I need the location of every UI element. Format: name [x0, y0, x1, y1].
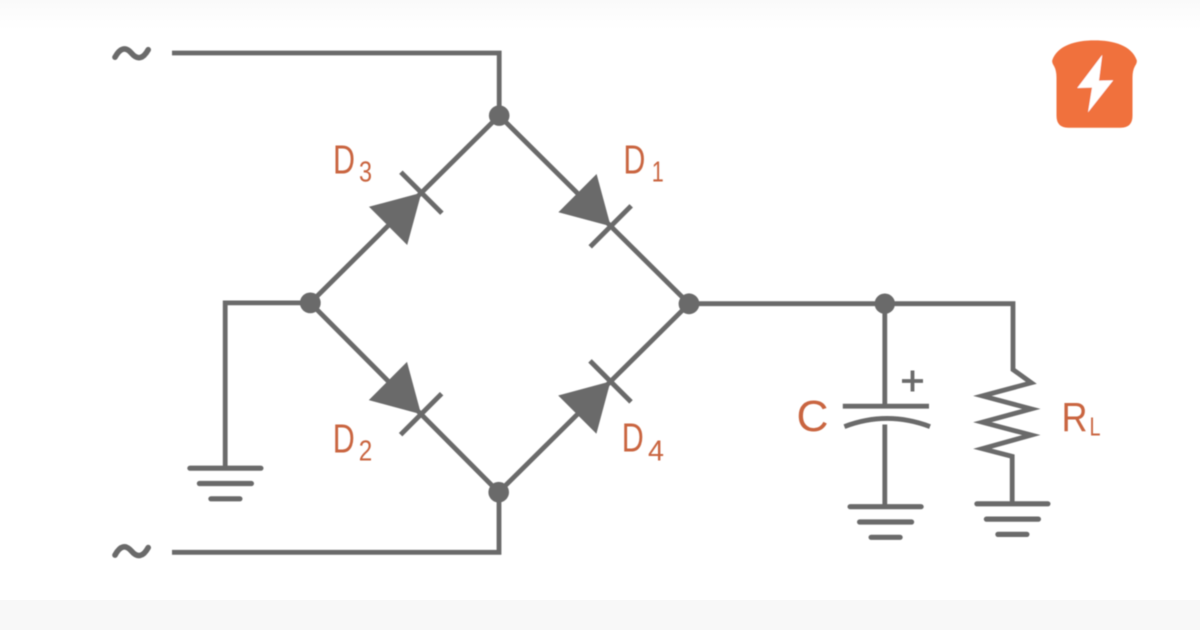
- svg-text:4: 4: [648, 435, 664, 467]
- svg-text:D: D: [333, 136, 355, 182]
- svg-text:3: 3: [359, 156, 372, 188]
- svg-text:C: C: [797, 392, 829, 441]
- svg-text:R: R: [1062, 394, 1088, 440]
- svg-text:1: 1: [652, 156, 664, 188]
- svg-text:D: D: [623, 136, 645, 182]
- svg-text:L: L: [1090, 412, 1101, 442]
- svg-text:D: D: [622, 415, 644, 461]
- svg-text:2: 2: [359, 435, 373, 467]
- svg-text:D: D: [333, 416, 355, 462]
